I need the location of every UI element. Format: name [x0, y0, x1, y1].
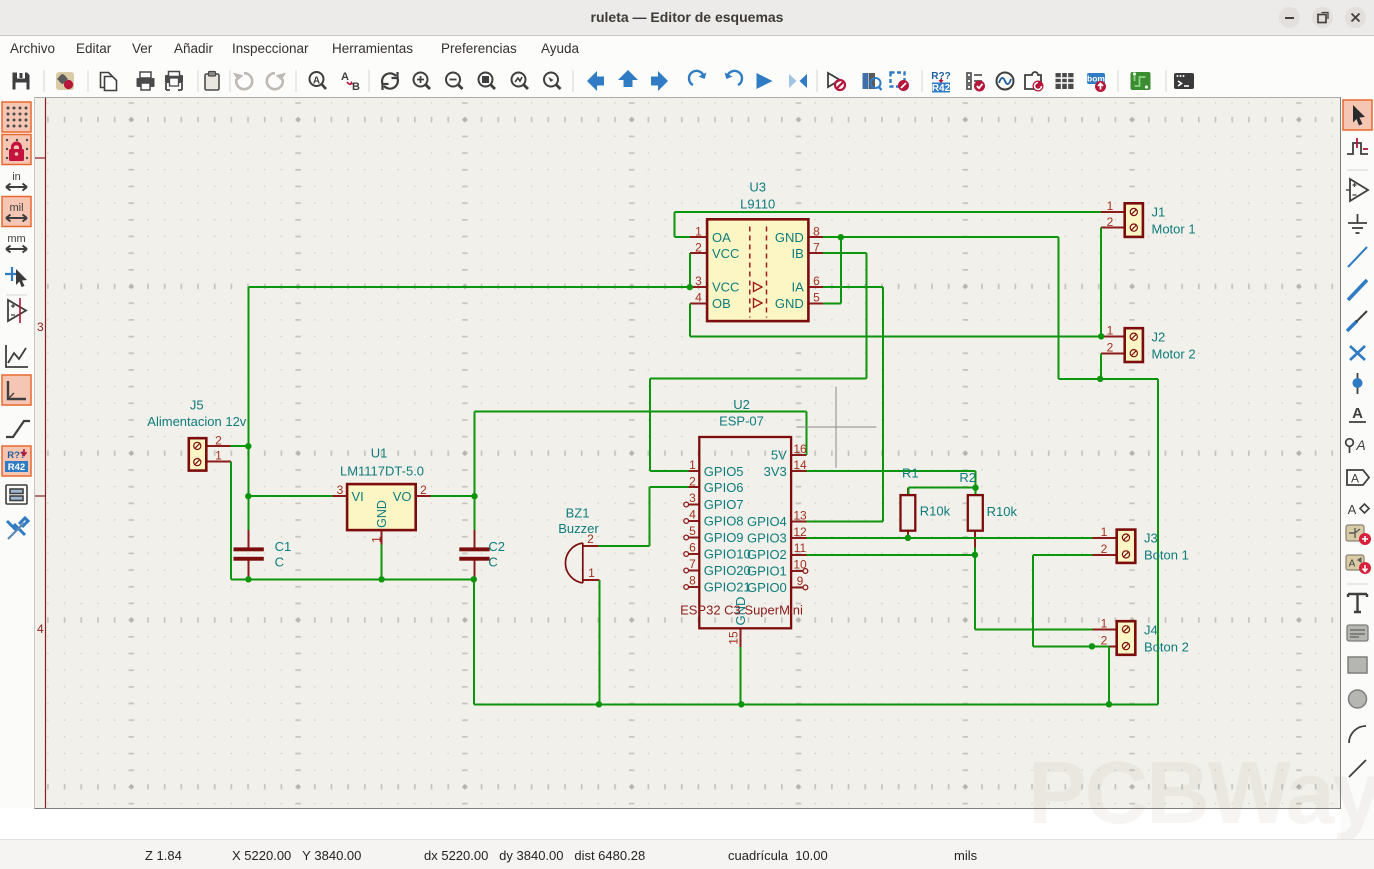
- svg-text:A: A: [1352, 405, 1363, 422]
- svg-text:14: 14: [793, 458, 807, 472]
- svg-text:1: 1: [1101, 525, 1108, 539]
- svg-text:VO: VO: [393, 489, 412, 504]
- svg-text:2: 2: [1101, 542, 1108, 556]
- svg-text:2: 2: [695, 240, 702, 254]
- svg-text:2: 2: [215, 433, 222, 447]
- svg-text:4: 4: [689, 508, 696, 522]
- svg-text:A: A: [1349, 559, 1356, 570]
- svg-text:J3: J3: [1144, 531, 1158, 546]
- svg-text:GPIO3: GPIO3: [747, 531, 787, 546]
- svg-text:A: A: [1351, 472, 1359, 486]
- svg-text:12: 12: [793, 525, 807, 539]
- svg-text:5: 5: [813, 290, 820, 304]
- svg-text:C2: C2: [488, 539, 505, 554]
- svg-text:GPIO1: GPIO1: [747, 564, 787, 579]
- svg-text:J4: J4: [1144, 623, 1158, 638]
- svg-text:3: 3: [695, 274, 702, 288]
- svg-text:R1: R1: [902, 466, 919, 481]
- svg-text:B: B: [352, 81, 360, 93]
- svg-text:1: 1: [1101, 617, 1108, 631]
- svg-text:OA: OA: [712, 230, 731, 245]
- svg-text:R2: R2: [959, 470, 976, 485]
- svg-text:6: 6: [689, 541, 696, 555]
- svg-text:GPIO2: GPIO2: [747, 547, 787, 562]
- svg-text:GPIO6: GPIO6: [704, 480, 744, 495]
- svg-text:Boton 2: Boton 2: [1144, 640, 1189, 655]
- svg-text:R42: R42: [932, 83, 951, 94]
- svg-text:VCC: VCC: [712, 246, 739, 261]
- svg-text:GND: GND: [775, 296, 804, 311]
- svg-text:3: 3: [37, 320, 44, 334]
- svg-text:2: 2: [420, 483, 427, 497]
- svg-text:C: C: [275, 555, 284, 570]
- svg-text:1: 1: [1107, 324, 1114, 338]
- svg-text:3V3: 3V3: [764, 464, 787, 479]
- svg-text:U1: U1: [371, 446, 388, 461]
- svg-text:8: 8: [813, 224, 820, 238]
- svg-text:C: C: [488, 555, 497, 570]
- svg-text:R10k: R10k: [920, 504, 951, 519]
- svg-text:2: 2: [689, 475, 696, 489]
- svg-text:LM1117DT-5.0: LM1117DT-5.0: [340, 464, 424, 479]
- svg-text:4: 4: [37, 622, 44, 636]
- svg-text:J5: J5: [190, 398, 204, 413]
- svg-text:GPIO0: GPIO0: [747, 580, 787, 595]
- svg-text:GPIO7: GPIO7: [704, 497, 744, 512]
- svg-text:GPIO20: GPIO20: [704, 563, 751, 578]
- svg-text:R42: R42: [8, 462, 25, 473]
- svg-text:GPIO9: GPIO9: [704, 530, 744, 545]
- svg-text:2: 2: [1107, 341, 1114, 355]
- svg-text:IA: IA: [792, 280, 805, 295]
- svg-text:Motor 2: Motor 2: [1152, 347, 1196, 362]
- svg-text:Motor 1: Motor 1: [1152, 222, 1196, 237]
- svg-text:10: 10: [793, 558, 807, 572]
- svg-text:7: 7: [813, 240, 820, 254]
- svg-text:4: 4: [695, 290, 702, 304]
- svg-text:ESP-07: ESP-07: [719, 414, 764, 429]
- svg-text:R10k: R10k: [987, 504, 1018, 519]
- svg-text:A: A: [341, 71, 349, 83]
- svg-text:13: 13: [793, 509, 807, 523]
- svg-text:A: A: [1355, 437, 1365, 453]
- svg-text:1: 1: [695, 224, 702, 238]
- svg-text:ESP32 C3 SuperMini: ESP32 C3 SuperMini: [680, 602, 803, 617]
- svg-text:OB: OB: [712, 296, 731, 311]
- svg-text:7: 7: [689, 557, 696, 571]
- svg-text:A: A: [313, 76, 320, 87]
- svg-text:U3: U3: [749, 180, 766, 195]
- svg-text:A: A: [1348, 502, 1357, 517]
- svg-text:GPIO4: GPIO4: [747, 514, 787, 529]
- svg-text:mm: mm: [7, 233, 25, 245]
- svg-text:2: 2: [1107, 215, 1114, 229]
- svg-text:16: 16: [793, 442, 807, 456]
- svg-text:15: 15: [727, 631, 741, 645]
- svg-text:GND: GND: [375, 500, 389, 528]
- svg-text:C1: C1: [275, 539, 292, 554]
- svg-text:1: 1: [588, 566, 595, 580]
- svg-text:1: 1: [1107, 199, 1114, 213]
- svg-text:GPIO5: GPIO5: [704, 464, 744, 479]
- svg-text:IB: IB: [792, 246, 804, 261]
- svg-text:8: 8: [689, 574, 696, 588]
- svg-text:3: 3: [337, 483, 344, 497]
- svg-text:L9110: L9110: [740, 197, 775, 212]
- svg-text:BZ1: BZ1: [566, 506, 590, 521]
- svg-text:1: 1: [370, 536, 384, 543]
- svg-text:5V: 5V: [771, 447, 787, 462]
- svg-text:in: in: [12, 171, 21, 183]
- svg-text:J2: J2: [1152, 330, 1166, 345]
- svg-text:6: 6: [813, 274, 820, 288]
- svg-text:GPIO8: GPIO8: [704, 513, 744, 528]
- svg-text:2: 2: [587, 532, 594, 546]
- svg-text:5: 5: [689, 524, 696, 538]
- svg-text:GPIO21: GPIO21: [704, 580, 751, 595]
- svg-text:VCC: VCC: [712, 280, 739, 295]
- svg-text:1: 1: [689, 458, 696, 472]
- svg-text:2: 2: [1101, 634, 1108, 648]
- svg-text:1: 1: [215, 449, 222, 463]
- svg-text:J1: J1: [1152, 205, 1166, 220]
- svg-text:3: 3: [689, 491, 696, 505]
- svg-text:VI: VI: [352, 489, 364, 504]
- svg-text:Alimentacion 12v: Alimentacion 12v: [147, 414, 246, 429]
- svg-text:11: 11: [794, 541, 807, 555]
- svg-text:Boton 1: Boton 1: [1144, 548, 1189, 563]
- svg-text:mil: mil: [9, 202, 23, 214]
- svg-text:GPIO10: GPIO10: [704, 547, 751, 562]
- svg-text:U2: U2: [733, 397, 750, 412]
- svg-text:GND: GND: [775, 230, 804, 245]
- svg-text:9: 9: [797, 574, 804, 588]
